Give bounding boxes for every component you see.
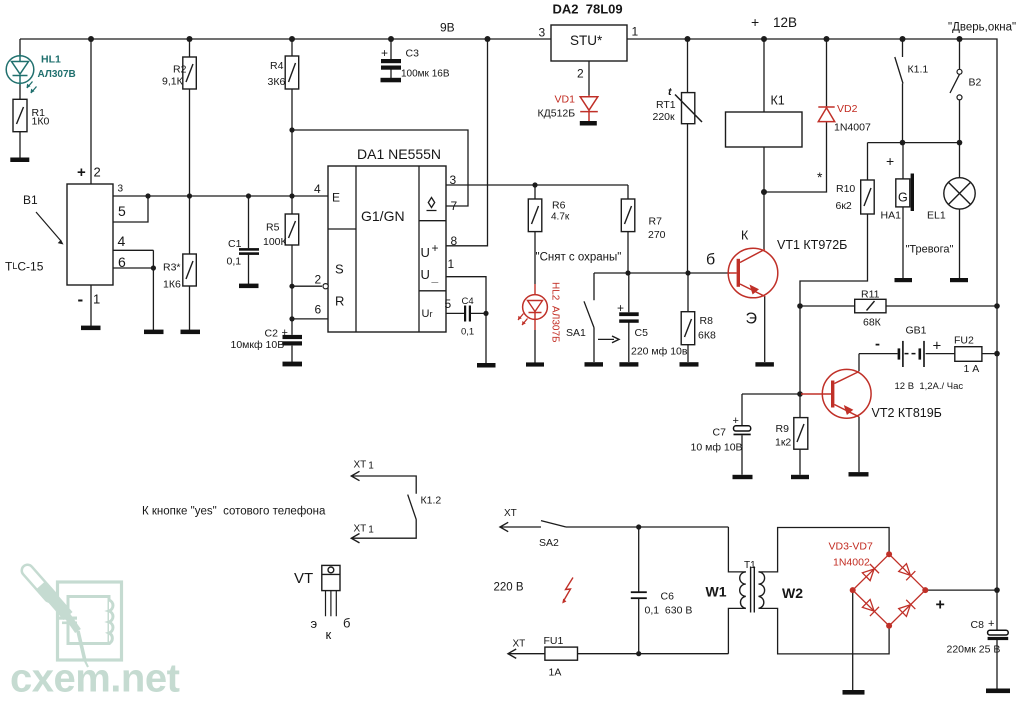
svg-text:1: 1 [632,25,639,39]
svg-text:К1: К1 [771,94,785,108]
svg-text:6: 6 [315,303,322,317]
svg-text:t: t [668,86,672,98]
svg-text:5: 5 [445,297,452,311]
svg-text:К1.2: К1.2 [421,495,442,507]
svg-text:C1: C1 [228,238,242,250]
svg-text:К1.1: К1.1 [908,64,929,76]
svg-text:DA1 NE555N: DA1 NE555N [357,146,441,162]
svg-text:R: R [335,294,344,309]
svg-text:R7: R7 [649,216,663,228]
svg-text:RT1: RT1 [656,99,676,111]
svg-text:220мк 25 В: 220мк 25 В [947,644,1001,656]
svg-text:S: S [335,262,344,277]
svg-text:+: + [751,14,759,30]
svg-text:*: * [817,169,823,185]
svg-text:C5: C5 [635,327,649,339]
svg-text:1К6: 1К6 [163,279,181,291]
svg-text:6К8: 6К8 [698,330,716,342]
svg-text:VD3-VD7: VD3-VD7 [829,541,874,553]
svg-text:C3: C3 [406,48,420,60]
svg-text:R5: R5 [266,222,280,234]
svg-text:АЛ307В: АЛ307В [38,69,76,80]
svg-text:+: + [381,46,388,60]
svg-text:U: U [421,267,430,282]
svg-text:220 В: 220 В [494,582,524,594]
svg-text:2: 2 [315,273,322,287]
svg-text:C7: C7 [713,427,727,439]
svg-text:HL1: HL1 [41,54,61,66]
svg-text:3: 3 [118,184,124,195]
svg-text:Т1: Т1 [744,560,756,571]
svg-text:ХТ1: ХТ1 [354,460,375,472]
svg-text:к: к [326,627,332,642]
svg-text:EL1: EL1 [927,210,946,222]
svg-text:э: э [311,616,318,631]
svg-text:VT2 КТ819Б: VT2 КТ819Б [872,406,942,420]
svg-text:HL2 АЛ307Б: HL2 АЛ307Б [550,282,561,343]
svg-text:ТLС-15: ТLС-15 [5,260,44,274]
svg-text:+: + [282,327,288,339]
svg-text:"Тревога": "Тревога" [906,244,954,256]
svg-text:68К: 68К [863,317,882,329]
svg-text:C8: C8 [971,619,985,631]
svg-text:К кнопке "yes" сотового телеф: К кнопке "yes" сотового телефона [142,506,326,518]
svg-text:G1/GN: G1/GN [361,208,405,224]
svg-text:SA1: SA1 [566,327,586,339]
svg-text:"Дверь,окна": "Дверь,окна" [948,22,1016,34]
svg-text:100К: 100К [263,236,288,248]
svg-text:GB1: GB1 [906,325,927,337]
svg-text:-: - [875,336,880,353]
svg-text:НА1: НА1 [881,210,902,222]
svg-text:SA2: SA2 [539,537,559,549]
svg-text:9В: 9В [440,21,455,35]
svg-text:FU2: FU2 [954,335,974,347]
svg-text:C2: C2 [265,328,279,340]
svg-text:+: + [733,415,739,427]
svg-text:9,1К: 9,1К [162,76,184,88]
svg-text:W1: W1 [706,584,727,600]
svg-text:1: 1 [448,257,455,271]
svg-text:"Снят с охраны": "Снят с охраны" [536,252,622,264]
svg-text:R9: R9 [776,423,790,435]
svg-text:Э: Э [746,311,758,328]
svg-text:R11: R11 [861,289,880,301]
svg-text:220 мф 10в: 220 мф 10в [631,346,688,358]
svg-text:+: + [988,618,994,630]
svg-text:КД512Б: КД512Б [538,108,576,120]
svg-text:б: б [706,252,715,269]
svg-text:4: 4 [314,182,321,196]
svg-text:W2: W2 [782,585,803,601]
svg-text:0,1: 0,1 [461,327,474,338]
svg-text:STU*: STU* [570,33,603,48]
svg-text:К: К [741,229,749,243]
svg-text:3К6: 3К6 [268,76,286,88]
svg-text:270: 270 [648,229,666,241]
svg-text:4.7к: 4.7к [551,212,570,223]
svg-text:R4: R4 [270,60,284,72]
svg-text:0,1: 0,1 [227,256,242,268]
svg-text:1N4002: 1N4002 [833,557,870,569]
svg-text:7: 7 [451,199,458,213]
svg-text:VT1 КТ972Б: VT1 КТ972Б [777,238,847,252]
svg-text:1: 1 [93,292,100,307]
svg-text:Ur: Ur [422,308,433,320]
svg-text:ХТ1: ХТ1 [354,524,375,536]
svg-text:-: - [78,290,84,309]
svg-text:DA2 78L09: DA2 78L09 [553,2,623,17]
svg-text:ХТ: ХТ [504,508,517,519]
svg-text:VD1: VD1 [555,94,576,106]
svg-text:2: 2 [577,67,584,81]
svg-text:+: + [936,597,945,614]
svg-text:U: U [421,245,430,260]
svg-text:3: 3 [539,26,546,40]
svg-text:12 В 1,2А./ Час: 12 В 1,2А./ Час [895,381,964,392]
svg-text:220к: 220к [653,111,676,123]
svg-text:1 А: 1 А [964,363,980,375]
svg-text:4: 4 [118,233,126,249]
svg-text:+: + [886,153,894,169]
svg-text:10мкф 10В: 10мкф 10В [231,339,285,351]
svg-text:R2: R2 [173,64,187,76]
svg-text:2: 2 [94,165,101,180]
svg-text:cxem.net: cxem.net [10,657,180,701]
svg-text:3: 3 [450,173,457,187]
svg-text:ХТ: ХТ [513,639,526,650]
svg-text:R3*: R3* [163,262,181,274]
svg-text:R8: R8 [700,315,714,327]
svg-text:VT: VT [294,570,313,587]
svg-text:б: б [343,616,350,631]
svg-text:0,1 630 В: 0,1 630 В [645,605,693,617]
svg-text:G: G [898,191,908,205]
svg-text:E: E [332,191,340,205]
svg-text:6: 6 [118,254,126,270]
svg-text:+: + [933,338,942,355]
svg-text:FU1: FU1 [544,635,564,647]
svg-text:5: 5 [118,203,126,219]
svg-text:В1: В1 [23,193,38,207]
svg-text:1к2: 1к2 [775,437,791,449]
svg-text:6к2: 6к2 [836,200,852,212]
svg-text:VD2: VD2 [837,103,858,115]
svg-text:_: _ [431,270,439,284]
svg-text:R6: R6 [552,200,566,212]
svg-text:+: + [617,301,624,315]
svg-text:В2: В2 [969,77,982,89]
svg-text:R10: R10 [836,183,855,195]
svg-text:C6: C6 [661,591,675,603]
svg-text:1К0: 1К0 [32,116,50,128]
svg-text:+: + [432,241,439,255]
svg-text:8: 8 [451,234,458,248]
svg-text:100мк 16В: 100мк 16В [401,69,450,80]
svg-text:1N4007: 1N4007 [834,122,871,134]
svg-text:+: + [77,164,86,181]
svg-text:C4: C4 [462,296,474,307]
svg-text:10 мф 10В: 10 мф 10В [691,442,743,454]
svg-text:12В: 12В [773,15,797,30]
svg-text:1А: 1А [549,667,562,679]
